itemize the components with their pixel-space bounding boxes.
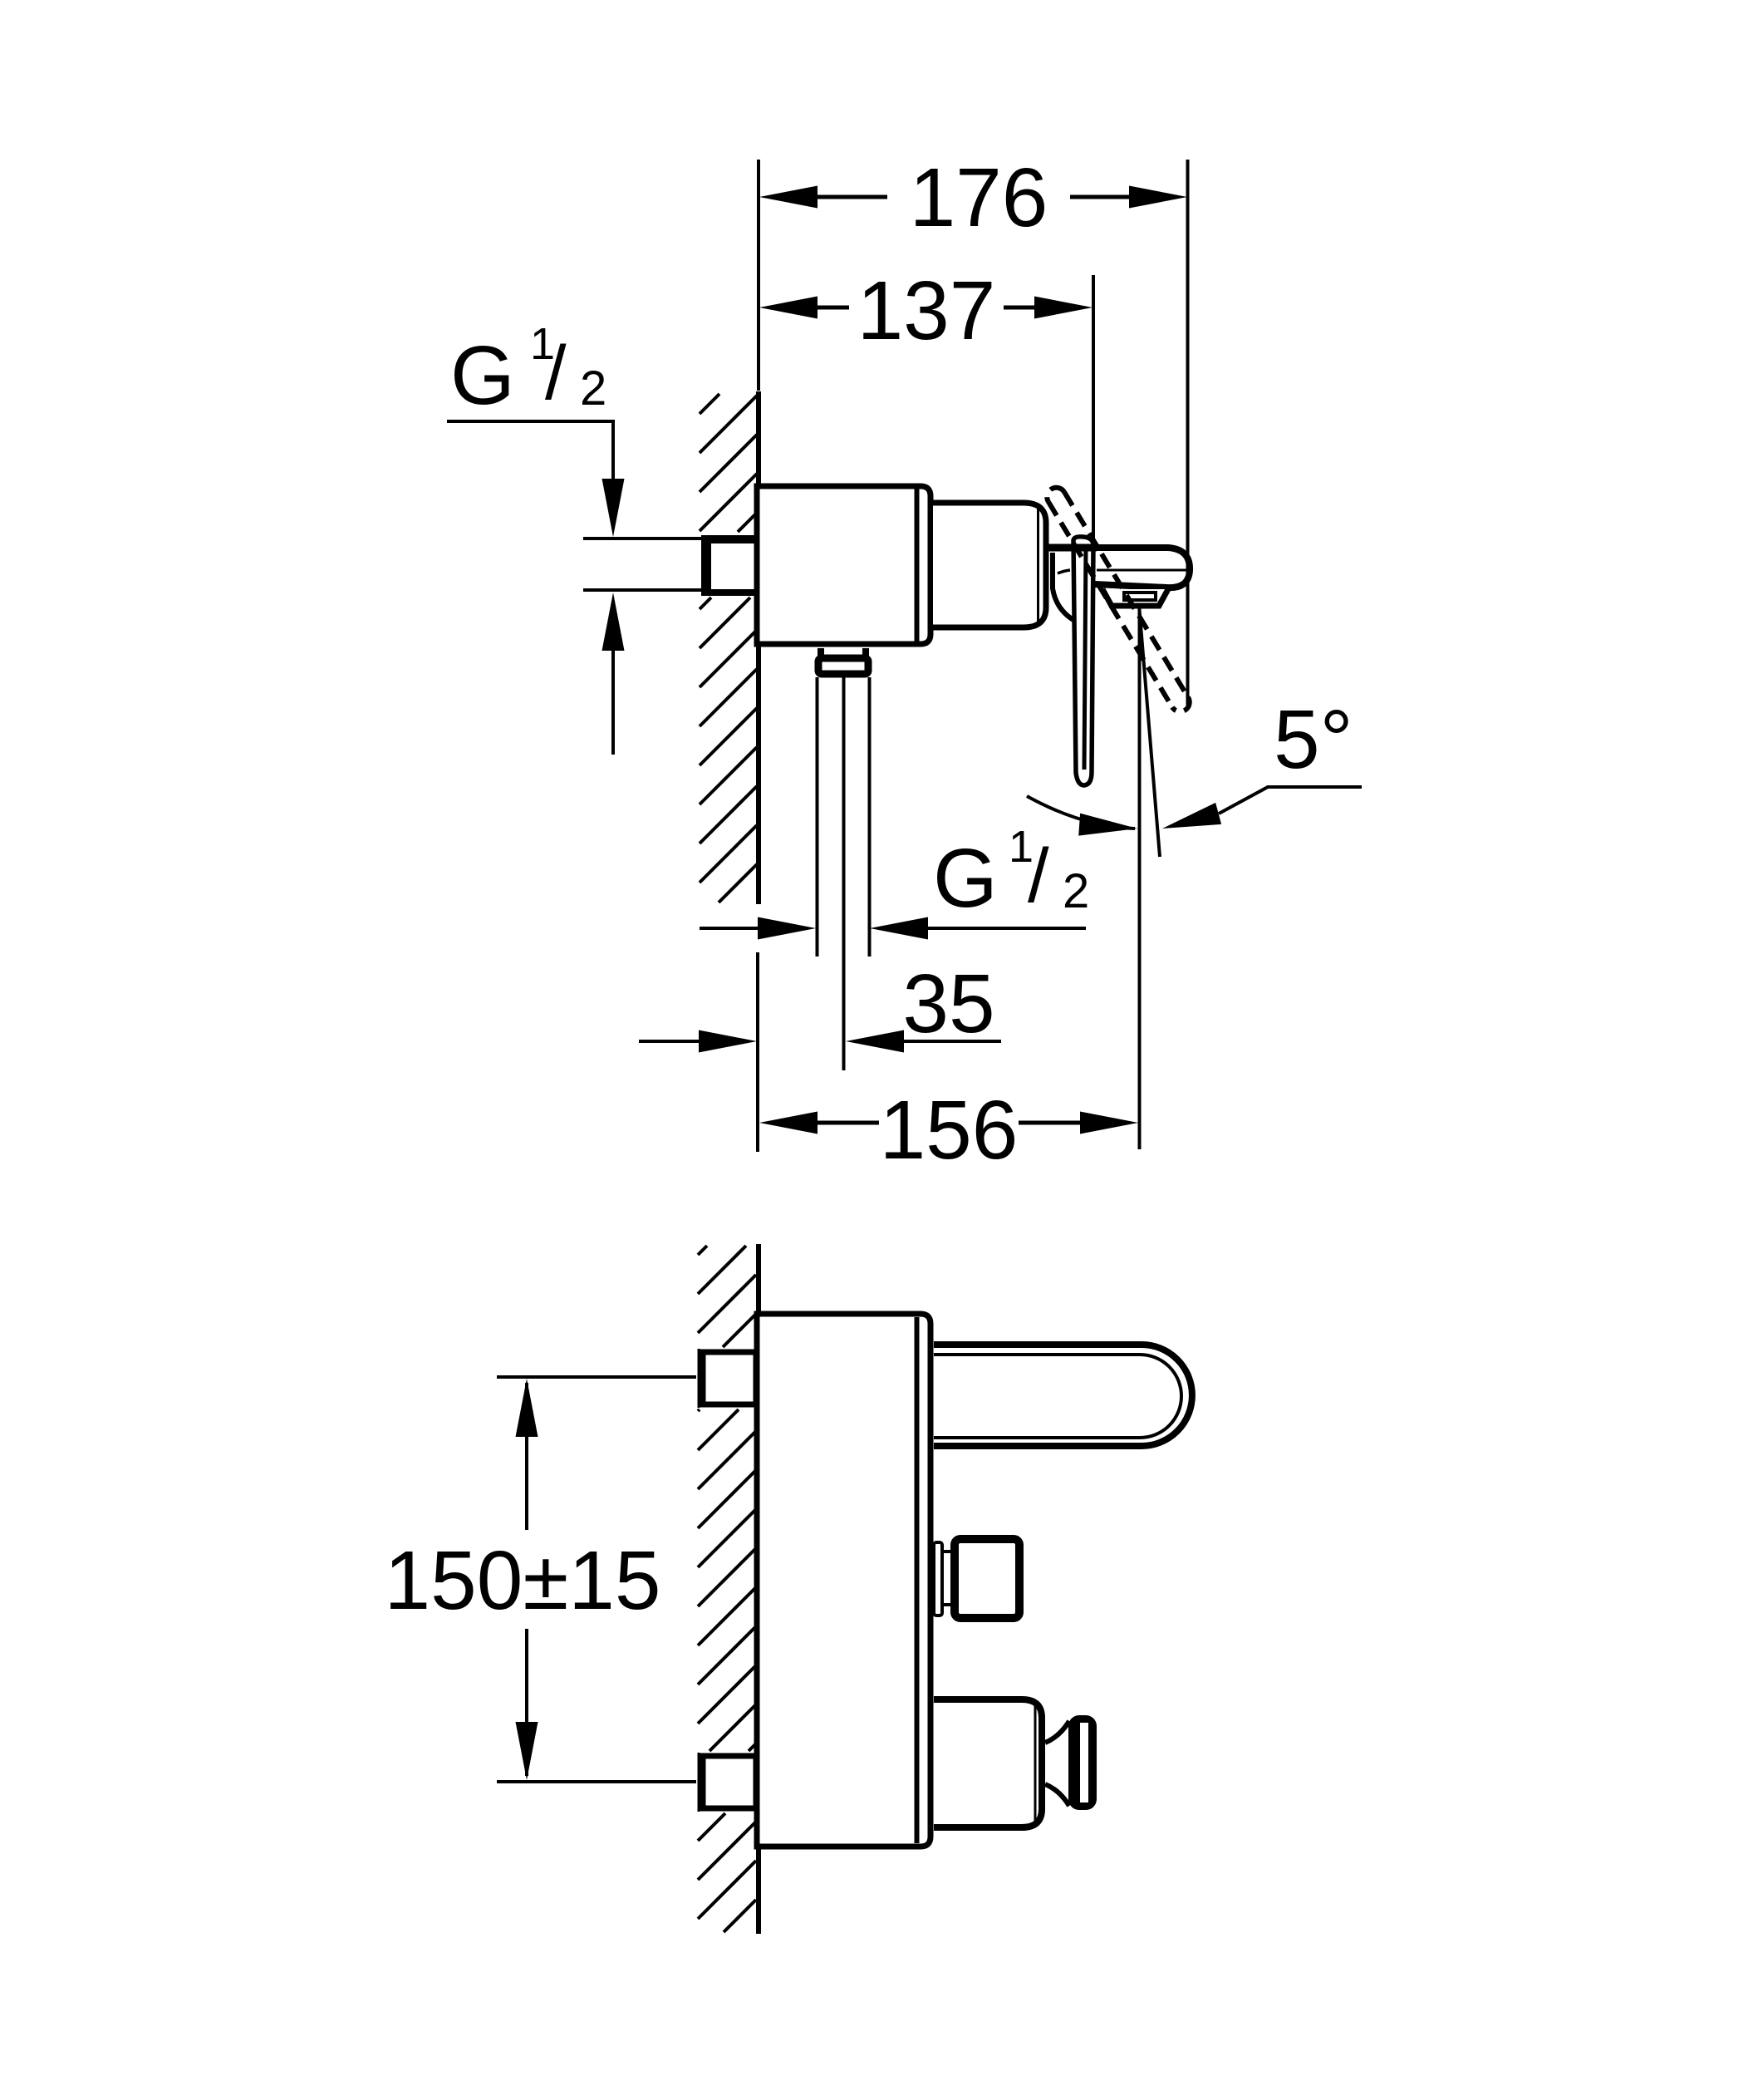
aerator <box>1102 589 1168 606</box>
wire: extension line right of 137 <box>1092 275 1095 544</box>
wire: extension line right of 176 (spout tip) <box>1186 160 1190 706</box>
angle arrow right with leader <box>1160 803 1222 839</box>
lever dashed (open position, tilted) <box>1047 488 1189 711</box>
svg-text:137: 137 <box>857 264 996 357</box>
cartridge end inner line <box>1037 509 1039 622</box>
svg-text:G: G <box>933 832 998 925</box>
svg-text:176: 176 <box>910 151 1048 244</box>
diverter knob bell <box>1068 1715 1097 1810</box>
svg-text:150±15: 150±15 <box>385 1534 661 1627</box>
wall socket top (plan) <box>698 1349 700 1408</box>
label G 1/2 (shower outlet) <box>933 822 1089 925</box>
wire: leader of G 1/2 top <box>447 421 613 479</box>
wall socket bottom (plan) <box>698 1753 700 1812</box>
hatch wall top view <box>700 394 757 902</box>
inlet pipe (top, into wall) <box>583 537 703 540</box>
angle arc left <box>1027 796 1135 829</box>
svg-text:35: 35 <box>902 957 994 1050</box>
spout inner thin line <box>1097 569 1186 572</box>
lever stem <box>1048 544 1097 552</box>
svg-text:/: / <box>545 331 567 416</box>
svg-text:156: 156 <box>880 1084 1019 1177</box>
body cap line <box>915 489 920 642</box>
dimension 176 <box>759 151 1187 244</box>
spout (plan, U shape) <box>934 1345 1192 1446</box>
spout (side view) <box>1091 548 1190 588</box>
dimension 156 <box>759 1084 1138 1177</box>
wire: arrow under pipe <box>602 593 625 651</box>
blade inner line <box>1084 547 1086 770</box>
svg-text:2: 2 <box>580 361 606 416</box>
svg-text:G: G <box>450 329 515 422</box>
hatch wall plan <box>698 1246 756 1932</box>
svg-text:2: 2 <box>1063 864 1089 918</box>
mixer body (side view) <box>757 486 930 644</box>
shower pipe <box>816 677 819 957</box>
shower outlet fitting <box>818 648 824 656</box>
body cap line (plan) <box>915 1317 920 1843</box>
dimension 137 <box>759 264 1092 357</box>
label G 1/2 (top inlet) <box>450 319 606 422</box>
wire: extension line left (wall plane, upper) <box>757 160 760 391</box>
svg-text:/: / <box>1028 834 1049 918</box>
wall section line (top view) <box>756 391 761 904</box>
G 1/2 thread dimension arrows <box>700 927 758 930</box>
lever blade (solid, closed position) <box>1073 537 1093 785</box>
diverter knob neck <box>1045 1721 1069 1743</box>
svg-text:5°: 5° <box>1274 693 1353 786</box>
lever hub contour <box>1053 553 1073 620</box>
wire: extension line left (wall plane, lower) <box>756 952 759 1152</box>
wire: lever axis vertical reference <box>1138 606 1142 1149</box>
wall socket (top view) <box>701 535 759 596</box>
diverter cylinder (plan) <box>934 1699 1042 1827</box>
lever knob (plan) <box>934 1542 942 1616</box>
dimension 150 +/- 15 <box>385 1377 696 1782</box>
cartridge housing <box>933 503 1046 627</box>
wire: tilted 5deg reference <box>1139 605 1160 857</box>
mixer body (plan) <box>757 1314 930 1847</box>
wall section line (plan) <box>756 1244 761 1934</box>
dimension 35 <box>639 957 1001 1053</box>
